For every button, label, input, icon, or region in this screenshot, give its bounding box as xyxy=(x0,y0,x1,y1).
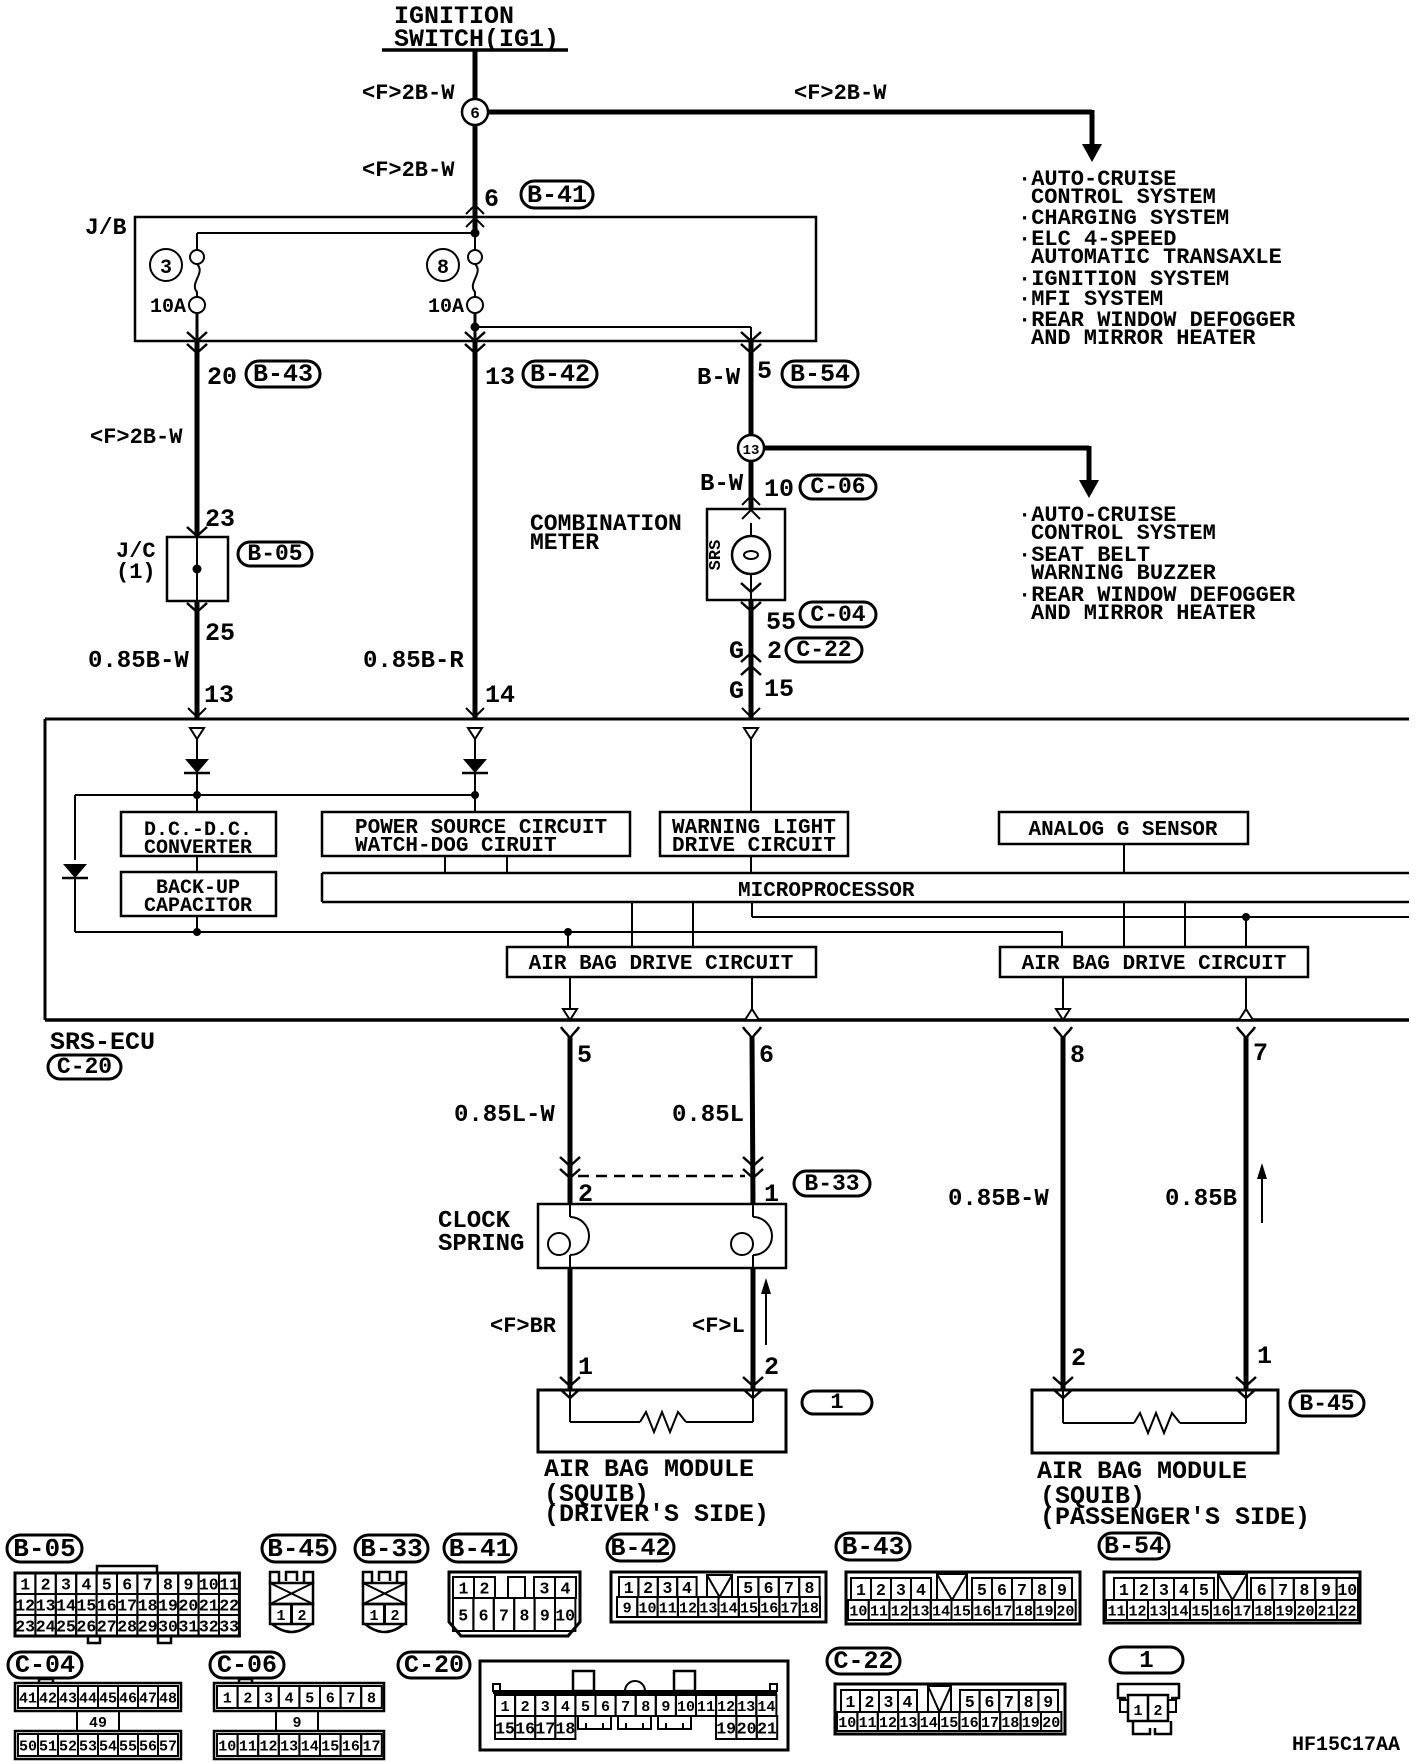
svg-text:<F>2B-W: <F>2B-W xyxy=(794,81,887,106)
svg-text:25: 25 xyxy=(205,619,235,648)
svg-text:(1): (1) xyxy=(116,560,156,585)
arrow to other systems (top right) xyxy=(1090,110,1095,146)
pin arrow into SRS-ECU pin15 xyxy=(742,708,760,717)
svg-text:B-45: B-45 xyxy=(1299,1391,1354,1417)
svg-text:4: 4 xyxy=(285,1690,294,1707)
svg-text:16: 16 xyxy=(760,1600,778,1617)
svg-text:15: 15 xyxy=(1191,1603,1209,1620)
connector label C-06 xyxy=(800,475,876,499)
wire bus B to airbag drive 1 xyxy=(567,932,569,947)
svg-text:14: 14 xyxy=(920,1715,938,1732)
wire pin14 to diode xyxy=(474,739,476,759)
svg-text:METER: METER xyxy=(530,530,599,556)
svg-text:C-20: C-20 xyxy=(57,1054,112,1080)
pin 6 fork xyxy=(743,1027,752,1039)
svg-text:6: 6 xyxy=(122,1575,132,1594)
svg-text:12: 12 xyxy=(259,1738,277,1755)
svg-text:10: 10 xyxy=(638,1600,656,1617)
svg-text:5: 5 xyxy=(577,1041,592,1070)
wire 0.85B-W (passenger) xyxy=(1061,1036,1066,1390)
svg-text:11: 11 xyxy=(659,1600,677,1617)
svg-text:2: 2 xyxy=(876,1581,886,1600)
svg-text:11: 11 xyxy=(697,1699,715,1716)
svg-text:14: 14 xyxy=(1170,1603,1188,1620)
svg-text:2: 2 xyxy=(521,1699,530,1716)
connector pinout label B-41 xyxy=(444,1534,516,1562)
pin arrow into J/B xyxy=(466,205,484,214)
svg-text:8: 8 xyxy=(1037,1581,1047,1600)
svg-text:7: 7 xyxy=(1278,1581,1288,1600)
internal rail y=795 xyxy=(75,794,475,796)
svg-text:9: 9 xyxy=(183,1575,193,1594)
svg-text:50: 50 xyxy=(19,1738,37,1755)
current direction arrow (driver) xyxy=(765,1292,767,1345)
svg-text:B-W: B-W xyxy=(697,365,741,392)
connector pinout B-41 (10 pin) xyxy=(449,1572,580,1636)
wire 0.85L-W xyxy=(568,1036,573,1204)
svg-text:WATCH-DOG CIRUIT: WATCH-DOG CIRUIT xyxy=(355,835,557,858)
pin 20 arrows (connector B-43) xyxy=(187,332,207,341)
svg-text:10: 10 xyxy=(764,475,794,504)
svg-text:AND MIRROR HEATER: AND MIRROR HEATER xyxy=(1031,326,1256,351)
svg-text:14: 14 xyxy=(932,1603,950,1620)
svg-text:10: 10 xyxy=(677,1699,695,1716)
wire drive1 to ECU pin 5 xyxy=(569,977,571,1009)
svg-text:C-04: C-04 xyxy=(15,1651,75,1680)
fuse 8 reference circle xyxy=(427,249,459,281)
svg-text:B-W: B-W xyxy=(700,471,744,498)
svg-text:0.85B-W: 0.85B-W xyxy=(88,648,189,675)
left rail down xyxy=(74,795,76,860)
pin 7 fork xyxy=(1237,1027,1246,1039)
svg-text:19: 19 xyxy=(158,1596,178,1615)
connector pinout B-33 (2 pin) xyxy=(363,1572,372,1584)
svg-text:12: 12 xyxy=(717,1699,735,1716)
svg-text:4: 4 xyxy=(561,1699,570,1716)
node junction dot in J/B xyxy=(471,229,480,238)
connector label 1 (oval) xyxy=(802,1391,872,1414)
svg-text:0.85L: 0.85L xyxy=(672,1102,744,1129)
svg-text:54: 54 xyxy=(99,1738,117,1755)
ECU pin 6 marker xyxy=(745,1009,759,1020)
svg-text:15: 15 xyxy=(76,1596,96,1615)
pin arrows into combination meter xyxy=(742,496,760,505)
svg-text:AIR BAG DRIVE CIRCUIT: AIR BAG DRIVE CIRCUIT xyxy=(529,953,794,976)
svg-text:13: 13 xyxy=(1149,1603,1167,1620)
diode D3 xyxy=(63,864,87,878)
wire B-W from J/B pin 5 to node 13 xyxy=(749,341,754,436)
clock spring coil right xyxy=(752,1204,754,1217)
air bag module (driver) box xyxy=(538,1390,786,1452)
svg-text:26: 26 xyxy=(76,1617,96,1636)
pin arrows into B-33 (pin1) xyxy=(743,1157,763,1166)
svg-text:1: 1 xyxy=(624,1579,634,1598)
svg-text:B-54: B-54 xyxy=(1104,1532,1164,1561)
wire G to SRS-ECU pin 15 xyxy=(749,600,754,719)
svg-text:16: 16 xyxy=(97,1596,117,1615)
svg-text:13: 13 xyxy=(743,443,760,459)
connector pinout label B-05 xyxy=(7,1535,82,1562)
svg-text:24: 24 xyxy=(36,1617,56,1636)
svg-text:56: 56 xyxy=(139,1738,157,1755)
svg-text:20: 20 xyxy=(207,363,237,392)
svg-text:7: 7 xyxy=(784,1579,794,1598)
air bag drive circuit block 2 xyxy=(1000,947,1308,977)
svg-text:4: 4 xyxy=(1179,1581,1189,1600)
svg-text:ANALOG G SENSOR: ANALOG G SENSOR xyxy=(1028,819,1217,842)
svg-text:1: 1 xyxy=(856,1581,866,1600)
connector pinout C-06 (17 pin) xyxy=(214,1683,384,1711)
svg-text:57: 57 xyxy=(159,1738,177,1755)
wire diode D2 down xyxy=(474,773,476,812)
svg-text:15: 15 xyxy=(740,1600,758,1617)
svg-text:10: 10 xyxy=(849,1603,867,1620)
svg-text:2: 2 xyxy=(1139,1581,1149,1600)
svg-text:9: 9 xyxy=(540,1606,550,1625)
svg-text:16: 16 xyxy=(342,1738,360,1755)
pin arrow into SRS-ECU pin14 xyxy=(466,708,484,717)
svg-text:5: 5 xyxy=(305,1690,314,1707)
wire converter to capacitor xyxy=(196,856,198,872)
connector pinout 1 (2 pin) xyxy=(1118,1684,1179,1698)
bus line B xyxy=(75,932,1062,947)
svg-text:15: 15 xyxy=(764,675,794,704)
svg-text:0.85B-W: 0.85B-W xyxy=(948,1186,1049,1213)
svg-text:19: 19 xyxy=(1022,1715,1040,1732)
svg-text:2: 2 xyxy=(243,1690,252,1707)
svg-text:23: 23 xyxy=(15,1617,35,1636)
svg-text:9: 9 xyxy=(1043,1693,1053,1712)
svg-text:J/B: J/B xyxy=(85,215,127,241)
svg-text:B-33: B-33 xyxy=(360,1534,422,1564)
svg-text:B-05: B-05 xyxy=(247,541,302,567)
diode D1 xyxy=(185,759,209,773)
svg-text:11: 11 xyxy=(1107,1603,1125,1620)
svg-text:9: 9 xyxy=(292,1715,301,1732)
warning light drive circuit block xyxy=(660,812,848,856)
svg-text:8: 8 xyxy=(163,1575,173,1594)
wire fuse 8 down xyxy=(474,313,477,341)
connector label C-22 (mid) xyxy=(786,638,862,662)
svg-text:5: 5 xyxy=(743,1579,753,1598)
svg-text:30: 30 xyxy=(158,1617,178,1636)
SRS-ECU box xyxy=(45,718,1409,721)
svg-text:13: 13 xyxy=(280,1738,298,1755)
pin arrow into J/C xyxy=(187,527,207,536)
svg-text:SRS: SRS xyxy=(707,540,726,571)
node dot in J/C xyxy=(193,565,202,574)
svg-text:1: 1 xyxy=(1257,1342,1272,1371)
connector pinout label B-54 xyxy=(1099,1533,1169,1559)
svg-text:2: 2 xyxy=(767,637,782,666)
svg-text:2: 2 xyxy=(480,1579,490,1598)
connector pinout B-54 (22 pin) xyxy=(1104,1572,1360,1623)
svg-text:4: 4 xyxy=(682,1579,692,1598)
connector pinout label C-06 xyxy=(210,1652,284,1678)
svg-text:46: 46 xyxy=(119,1690,137,1707)
svg-text:19: 19 xyxy=(716,1719,736,1738)
connector pinout label B-42 xyxy=(607,1534,674,1561)
svg-text:45: 45 xyxy=(99,1690,117,1707)
svg-text:8: 8 xyxy=(1024,1693,1034,1712)
svg-text:18: 18 xyxy=(1015,1603,1033,1620)
wire J/B to fuse 3 xyxy=(197,232,475,234)
svg-text:14: 14 xyxy=(301,1738,319,1755)
svg-text:23: 23 xyxy=(205,505,235,534)
wire <F>2B-W from J/B pin 20 to J/C xyxy=(195,341,200,537)
svg-text:8: 8 xyxy=(804,1579,814,1598)
ECU pin 14 marker xyxy=(468,728,482,739)
diode D2 xyxy=(463,759,487,773)
svg-text:6: 6 xyxy=(479,1606,489,1625)
wire <F>BR xyxy=(568,1268,573,1390)
svg-text:(PASSENGER'S SIDE): (PASSENGER'S SIDE) xyxy=(1040,1503,1310,1532)
wire node 13 to combination meter xyxy=(749,461,754,509)
svg-text:3: 3 xyxy=(540,1579,550,1598)
fuse 8 element xyxy=(468,250,482,264)
svg-text:16: 16 xyxy=(515,1719,535,1738)
svg-text:B-42: B-42 xyxy=(610,1534,670,1563)
svg-text:SRS-ECU: SRS-ECU xyxy=(50,1028,155,1057)
svg-text:55: 55 xyxy=(119,1738,137,1755)
wire warning block to microprocessor xyxy=(750,856,752,873)
svg-text:14: 14 xyxy=(757,1699,775,1716)
svg-text:7: 7 xyxy=(143,1575,153,1594)
svg-text:13: 13 xyxy=(911,1603,929,1620)
svg-text:5: 5 xyxy=(102,1575,112,1594)
svg-text:27: 27 xyxy=(97,1617,117,1636)
svg-text:15: 15 xyxy=(940,1715,958,1732)
connector pinout B-42 (18 pin) xyxy=(611,1572,826,1622)
svg-text:14: 14 xyxy=(720,1600,738,1617)
svg-text:1: 1 xyxy=(20,1575,30,1594)
wire 0.85L xyxy=(752,1036,753,1204)
svg-text:33: 33 xyxy=(219,1617,239,1636)
connector pinout C-04 (rows 41-57) xyxy=(15,1683,181,1711)
svg-text:3: 3 xyxy=(541,1699,550,1716)
svg-text:2: 2 xyxy=(643,1579,653,1598)
wire branch right from node 13 xyxy=(763,446,1089,451)
svg-text:1: 1 xyxy=(369,1608,378,1625)
svg-text:1: 1 xyxy=(1139,1648,1153,1675)
wire capacitor down xyxy=(196,916,198,932)
svg-text:1: 1 xyxy=(1133,1703,1142,1720)
svg-text:16: 16 xyxy=(1212,1603,1230,1620)
microprocessor block xyxy=(322,872,1409,875)
svg-text:17: 17 xyxy=(117,1596,137,1615)
svg-text:2: 2 xyxy=(1153,1703,1162,1720)
fuse 3 element xyxy=(190,250,204,264)
svg-text:18: 18 xyxy=(1254,1603,1272,1620)
wire branch right <F>2B-W to other systems xyxy=(487,110,1092,115)
svg-text:2: 2 xyxy=(297,1608,306,1625)
svg-text:5: 5 xyxy=(458,1606,468,1625)
svg-text:1: 1 xyxy=(501,1699,510,1716)
svg-text:B-43: B-43 xyxy=(253,360,313,389)
svg-text:17: 17 xyxy=(781,1600,799,1617)
svg-text:8: 8 xyxy=(367,1690,376,1707)
svg-text:6: 6 xyxy=(326,1690,335,1707)
pin arrows out of combination meter xyxy=(741,583,761,592)
svg-text:18: 18 xyxy=(1001,1715,1019,1732)
node junction below fuse 8 xyxy=(471,323,480,332)
wire pin15 to warning light block xyxy=(750,739,752,812)
squib resistor (passenger) xyxy=(1062,1390,1064,1423)
svg-text:6: 6 xyxy=(997,1581,1007,1600)
ECU pin 15 marker xyxy=(744,728,758,739)
svg-text:4: 4 xyxy=(916,1581,926,1600)
svg-text:7: 7 xyxy=(1017,1581,1027,1600)
svg-text:10: 10 xyxy=(218,1738,236,1755)
svg-text:19: 19 xyxy=(1036,1603,1054,1620)
svg-text:3: 3 xyxy=(1159,1581,1169,1600)
node dot at 197,932 xyxy=(193,928,201,936)
svg-text:2: 2 xyxy=(764,1353,779,1382)
svg-text:5: 5 xyxy=(1199,1581,1209,1600)
svg-text:9: 9 xyxy=(1057,1581,1067,1600)
svg-text:19: 19 xyxy=(1275,1603,1293,1620)
svg-text:15: 15 xyxy=(953,1603,971,1620)
ECU pin 5 marker xyxy=(563,1009,577,1020)
svg-text:48: 48 xyxy=(159,1690,177,1707)
pin arrows into B-33 (pin2) xyxy=(560,1157,580,1166)
svg-text:16: 16 xyxy=(961,1715,979,1732)
svg-text:3: 3 xyxy=(264,1690,273,1707)
svg-text:17: 17 xyxy=(981,1715,999,1732)
svg-text:20: 20 xyxy=(1296,1603,1314,1620)
svg-text:13: 13 xyxy=(699,1600,717,1617)
svg-text:43: 43 xyxy=(59,1690,77,1707)
svg-text:11: 11 xyxy=(859,1715,877,1732)
connector pinout label B-33 xyxy=(355,1535,428,1562)
svg-text:7: 7 xyxy=(1253,1039,1268,1068)
svg-text:11: 11 xyxy=(219,1575,239,1594)
node dot bus B xyxy=(564,928,572,936)
svg-text:32: 32 xyxy=(199,1617,219,1636)
svg-text:AND MIRROR HEATER: AND MIRROR HEATER xyxy=(1031,601,1256,626)
svg-text:2: 2 xyxy=(41,1575,51,1594)
connector pinout label C-22 xyxy=(827,1648,900,1674)
svg-text:8: 8 xyxy=(641,1699,650,1716)
ECU pin 7 marker xyxy=(1239,1009,1253,1020)
svg-text:0.85B: 0.85B xyxy=(1165,1186,1237,1213)
svg-text:3: 3 xyxy=(896,1581,906,1600)
power source circuit block xyxy=(322,812,630,856)
svg-text:1: 1 xyxy=(830,1390,843,1415)
svg-text:7: 7 xyxy=(1004,1693,1014,1712)
node dot at 475,795 xyxy=(471,791,479,799)
ECU pin 8 marker xyxy=(1056,1009,1070,1020)
bus line A xyxy=(752,916,1409,918)
svg-text:3: 3 xyxy=(160,257,172,280)
fuse 3 reference circle xyxy=(150,249,182,281)
clock spring coil left xyxy=(569,1204,571,1217)
svg-text:C-06: C-06 xyxy=(810,474,865,500)
wire 0.85B xyxy=(1244,1036,1249,1390)
connector label B-45 (mid) xyxy=(1290,1391,1364,1416)
svg-text:16: 16 xyxy=(974,1603,992,1620)
wire from node 6 down to J/B pin 6 xyxy=(473,125,478,233)
svg-text:7: 7 xyxy=(621,1699,630,1716)
connector pinout label B-45 xyxy=(262,1535,335,1562)
wire inside J/B from pin 6 xyxy=(474,217,476,251)
svg-text:17: 17 xyxy=(1233,1603,1251,1620)
svg-text:G: G xyxy=(729,677,744,706)
svg-text:11: 11 xyxy=(870,1603,888,1620)
svg-text:13: 13 xyxy=(204,681,234,710)
svg-text:18: 18 xyxy=(801,1600,819,1617)
svg-text:18: 18 xyxy=(138,1596,158,1615)
svg-text:8: 8 xyxy=(1070,1041,1085,1070)
wire diode D1 down xyxy=(196,773,198,812)
svg-text:18: 18 xyxy=(555,1719,575,1738)
svg-text:B-42: B-42 xyxy=(530,360,590,389)
svg-text:28: 28 xyxy=(117,1617,137,1636)
svg-text:20: 20 xyxy=(737,1719,757,1738)
svg-text:12: 12 xyxy=(1128,1603,1146,1620)
micro pins to airbag drive 1 xyxy=(631,902,633,947)
svg-text:13: 13 xyxy=(36,1596,56,1615)
wire drive2 to ECU pin 7 xyxy=(1245,977,1247,1009)
svg-text:15: 15 xyxy=(495,1719,515,1738)
svg-text:C-22: C-22 xyxy=(833,1647,893,1676)
connector label B-33 (mid) xyxy=(794,1171,870,1196)
svg-text:22: 22 xyxy=(1338,1603,1356,1620)
svg-text:8: 8 xyxy=(1300,1581,1310,1600)
svg-text:1: 1 xyxy=(846,1693,856,1712)
svg-text:21: 21 xyxy=(757,1719,777,1738)
connector pinout B-43 (20 pin) xyxy=(846,1572,1080,1624)
svg-text:C-04: C-04 xyxy=(810,602,865,628)
connector pinout C-22 (20 pin) xyxy=(835,1684,1065,1734)
svg-text:12: 12 xyxy=(679,1600,697,1617)
pin 8 fork xyxy=(1054,1027,1063,1039)
svg-text:4: 4 xyxy=(561,1579,571,1598)
svg-text:13: 13 xyxy=(485,363,515,392)
svg-text:DRIVE CIRCUIT: DRIVE CIRCUIT xyxy=(672,835,836,858)
svg-text:14: 14 xyxy=(56,1596,76,1615)
svg-text:<F>2B-W: <F>2B-W xyxy=(362,158,455,183)
squib resistor (driver) xyxy=(569,1390,571,1422)
wire bus A to airbag drive 2 xyxy=(1245,917,1247,947)
connector pinout B-05 (33 pin) xyxy=(97,1566,157,1573)
connector B-33 dashed link xyxy=(578,1175,745,1178)
air bag module (passenger) box xyxy=(1032,1390,1278,1453)
SRS warning lamp xyxy=(750,523,752,536)
svg-text:3: 3 xyxy=(884,1693,894,1712)
svg-text:20: 20 xyxy=(1056,1603,1074,1620)
svg-text:B-54: B-54 xyxy=(790,360,850,389)
svg-text:22: 22 xyxy=(219,1596,239,1615)
micro pins to airbag drive 2 xyxy=(1123,902,1125,947)
svg-text:2: 2 xyxy=(1071,1344,1086,1373)
svg-text:B-33: B-33 xyxy=(804,1171,859,1197)
svg-text:13: 13 xyxy=(899,1715,917,1732)
connector label B-42 (top) xyxy=(523,361,597,387)
svg-text:7: 7 xyxy=(499,1606,509,1625)
wire J/B internal to pin 5 xyxy=(475,326,751,328)
svg-text:B-05: B-05 xyxy=(13,1534,75,1564)
wire diode D3 down xyxy=(74,864,76,932)
analog g sensor block xyxy=(999,812,1248,844)
svg-text:6: 6 xyxy=(759,1041,774,1070)
connector pinout label 1 (oval) xyxy=(1110,1647,1183,1673)
svg-text:0.85B-R: 0.85B-R xyxy=(363,648,464,675)
arrow to other systems (middle right) xyxy=(1087,446,1092,482)
D.C.-D.C. converter block xyxy=(121,812,276,856)
svg-text:55: 55 xyxy=(766,608,796,637)
node dot bus A xyxy=(1242,913,1250,921)
